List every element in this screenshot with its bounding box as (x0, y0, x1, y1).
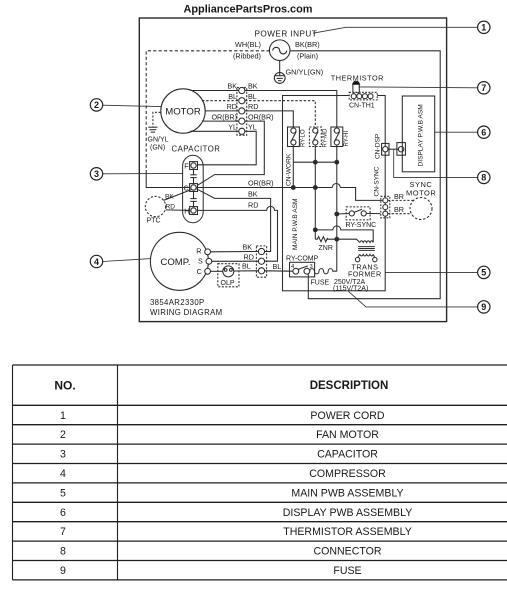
compressor terminal R (205, 249, 211, 255)
svg-text:CAPACITOR: CAPACITOR (317, 449, 378, 461)
wire OR(BR) down to capacitor C node (196, 121, 265, 187)
svg-text:YL: YL (248, 123, 257, 132)
node callout 7 (478, 82, 490, 94)
wire YL down to capacitor F terminal (198, 131, 257, 165)
svg-text:THERMISTOR: THERMISTOR (331, 74, 384, 83)
wire BL dashed to RY-MD (245, 101, 315, 128)
fuse F1 wavy symbol (310, 269, 337, 274)
svg-text:3: 3 (60, 449, 66, 461)
ground motor chassis earth GN/YL (153, 112, 161, 126)
svg-text:2: 2 (60, 429, 66, 441)
svg-text:RD: RD (166, 203, 176, 210)
svg-text:BK(BR): BK(BR) (295, 40, 320, 49)
svg-text:WH(BL): WH(BL) (235, 40, 261, 49)
svg-text:POWER INPUT: POWER INPUT (255, 30, 318, 39)
svg-text:COMP.: COMP. (160, 257, 190, 268)
wire BR lower (dashed) (388, 213, 412, 215)
svg-text:OR(BR): OR(BR) (211, 112, 237, 121)
svg-text:8: 8 (481, 173, 486, 183)
svg-text:1: 1 (60, 410, 66, 422)
parts table grid (13, 365, 507, 580)
svg-text:4: 4 (60, 468, 66, 480)
svg-text:(GN): (GN) (150, 145, 165, 152)
svg-text:POWER CORD: POWER CORD (310, 410, 385, 422)
svg-text:3854AR2330P: 3854AR2330P (150, 298, 205, 307)
svg-text:7: 7 (60, 526, 66, 538)
relay RY-LO box (288, 127, 300, 147)
wire capacitor H RD branch to compressor S (hop over BK) (198, 206, 278, 261)
wire relay common bus (292, 145, 294, 186)
svg-text:FUSE: FUSE (333, 565, 361, 577)
motor M1 fan motor circle (161, 89, 205, 133)
transformer T1 (337, 239, 360, 242)
ground GN/YL(GN) power cord earth (279, 61, 281, 76)
svg-text:DISPLAY PWB ASSEMBLY: DISPLAY PWB ASSEMBLY (283, 507, 413, 519)
svg-text:9: 9 (481, 302, 486, 312)
wire motor BL lead (dashed) (202, 100, 238, 102)
capacitor terminal F (190, 162, 198, 170)
wire motor OR(BR) lead (202, 120, 238, 122)
varistor ZNR (315, 237, 337, 242)
connector CN-TH1 dashed box 4-pin (349, 92, 377, 100)
svg-text:MOTOR: MOTOR (165, 107, 201, 118)
svg-text:PTC: PTC (147, 218, 161, 225)
node callout 6 (478, 126, 490, 138)
svg-text:MAIN PWB ASSEMBLY: MAIN PWB ASSEMBLY (291, 487, 403, 499)
node callout 9 (478, 301, 490, 313)
svg-text:RY-MD: RY-MD (323, 128, 329, 148)
svg-text:CONNECTOR: CONNECTOR (313, 546, 381, 558)
wire BL to RY-COMP (265, 270, 293, 272)
svg-text:BR: BR (394, 192, 404, 201)
svg-text:BL: BL (273, 262, 282, 271)
svg-text:COMPRESSOR: COMPRESSOR (309, 468, 386, 480)
svg-text:BL: BL (248, 92, 257, 101)
capacitor plates F-C (193, 170, 195, 175)
svg-text:YL: YL (228, 123, 237, 132)
connector CN-SYNC dashed box 3-pin (381, 196, 390, 218)
connector motor plug 5-pin dashed box (237, 88, 247, 136)
wire motor RD lead (205, 110, 238, 112)
capacitor plates C-H (193, 192, 195, 199)
capacitor terminal H (190, 207, 198, 215)
svg-text:OR(BR): OR(BR) (248, 179, 274, 188)
svg-text:BL: BL (242, 261, 251, 270)
svg-text:C: C (197, 267, 202, 276)
compressor terminal S (206, 258, 212, 264)
wire RD to RY-LO (245, 111, 293, 128)
svg-text:OR(BR): OR(BR) (248, 112, 274, 121)
svg-text:CN-WORK: CN-WORK (285, 153, 292, 186)
wire callout 1 leader (power cord) (313, 27, 478, 33)
wire capacitor C BK branch to compressor R (197, 189, 271, 252)
wire PTC RD to capacitor H (166, 209, 190, 212)
svg-text:GN/YL: GN/YL (148, 137, 169, 144)
svg-text:MAIN P.W.B ASM: MAIN P.W.B ASM (292, 198, 299, 250)
wire C to OLP (211, 270, 223, 272)
thermistor TH1 (353, 84, 359, 92)
wire callout 5 leader (main pwb) (385, 271, 477, 273)
svg-text:5: 5 (60, 487, 66, 499)
svg-text:8: 8 (60, 546, 66, 558)
node callout 5 (478, 266, 490, 278)
svg-text:3: 3 (94, 169, 99, 179)
svg-text:RD: RD (248, 102, 258, 111)
svg-text:6: 6 (60, 507, 66, 519)
svg-text:CN-DSP: CN-DSP (374, 133, 381, 159)
wire RY-HI leg down to fuse (336, 162, 338, 271)
svg-text:R: R (196, 246, 201, 255)
svg-text:S: S (198, 257, 203, 266)
wire WH(BL) ribbed dashed: power to enclosure left (146, 51, 270, 170)
wire PTC BK to capacitor C (164, 190, 192, 201)
svg-text:CAPACITOR: CAPACITOR (172, 144, 221, 153)
svg-text:RY-HI: RY-HI (344, 130, 350, 146)
svg-text:GN/YL(GN): GN/YL(GN) (286, 68, 324, 77)
svg-text:FUSE: FUSE (311, 279, 330, 286)
compressor terminal C (205, 268, 211, 274)
svg-text:CN-TH1: CN-TH1 (349, 103, 375, 110)
node callout 4 (90, 255, 102, 267)
wire capacitor C common node to CN-SYNC (OR(BR) row with hops) (196, 184, 382, 201)
svg-text:9: 9 (60, 565, 66, 577)
svg-text:F: F (184, 163, 188, 170)
wire RY-MD leg down to ZNR (314, 162, 316, 239)
svg-text:BR: BR (394, 205, 404, 214)
relay RY-HI box (331, 127, 343, 147)
svg-text:BK: BK (243, 242, 253, 251)
svg-text:1: 1 (481, 23, 486, 33)
svg-text:H: H (184, 208, 189, 215)
svg-text:(Ribbed): (Ribbed) (233, 52, 261, 61)
node callout 1 (478, 21, 490, 33)
protector OLP dashed box (218, 264, 239, 287)
wire callout 6 leader (display pwb) (435, 131, 478, 133)
svg-text:FAN MOTOR: FAN MOTOR (316, 429, 379, 441)
svg-text:NO.: NO. (54, 378, 75, 392)
svg-text:ZNR: ZNR (319, 245, 333, 252)
connector compressor plug 3-pin dashed box (256, 246, 266, 277)
svg-text:MOTOR: MOTOR (406, 189, 436, 198)
connector CN-DSP left pin (382, 143, 389, 155)
svg-text:(Plain): (Plain) (297, 52, 318, 61)
relay RY-SYNC dashed box (337, 213, 349, 216)
relay RY-COMP box (290, 262, 315, 277)
wire callout 8 leader (connector CN-DSP) (394, 149, 478, 177)
wire W1 RY-MD node to transformer right (hop) (315, 226, 373, 243)
capacitor C1 body stadium outline (183, 155, 204, 223)
wire motor YL lead (190, 130, 238, 132)
wire CN-DSP link (388, 148, 398, 150)
svg-text:BK: BK (227, 82, 237, 91)
svg-text:DESCRIPTION: DESCRIPTION (310, 380, 389, 392)
wire callout 4 leader (compressor) (103, 259, 151, 262)
wire BK to RY-HI (245, 91, 337, 128)
relay RY-MD dashed box (309, 127, 321, 147)
wire R to plug BK (211, 251, 259, 253)
wire callout 9 leader (fuse) (349, 291, 478, 307)
svg-text:4: 4 (94, 257, 99, 267)
outer diagram border frame (139, 18, 446, 322)
svg-text:OLP: OLP (221, 280, 235, 287)
svg-text:THERMISTOR ASSEMBLY: THERMISTOR ASSEMBLY (283, 526, 412, 538)
svg-text:RY-COMP: RY-COMP (286, 255, 319, 262)
svg-text:5: 5 (481, 268, 486, 278)
svg-text:RD: RD (248, 201, 258, 210)
svg-text:RY-LO: RY-LO (301, 129, 307, 147)
wire WH continues to capacitor C node (146, 170, 191, 188)
wire S to plug RD (212, 260, 258, 262)
svg-text:BK: BK (248, 189, 258, 198)
svg-text:WIRING DIAGRAM: WIRING DIAGRAM (150, 308, 222, 317)
wire callout 2 leader (fan motor) (103, 105, 162, 106)
node callout 2 (90, 99, 102, 111)
wire OLP to plug BL (234, 270, 258, 272)
svg-text:FORMER: FORMER (348, 270, 382, 279)
svg-text:6: 6 (481, 128, 486, 138)
svg-text:7: 7 (481, 83, 486, 93)
svg-text:AppliancePartsPros.com: AppliancePartsPros.com (184, 4, 313, 16)
node callout 3 (90, 168, 102, 180)
wire callout 7 leader (thermistor) (359, 86, 478, 89)
wire BR upper (dashed) (388, 199, 414, 201)
motor M3 sync motor dashed circle (410, 198, 432, 220)
node callout 8 (478, 171, 490, 183)
svg-text:RD: RD (244, 252, 254, 261)
svg-text:BK: BK (248, 82, 258, 91)
connector CN-DSP right pin (397, 143, 406, 156)
svg-text:RD: RD (227, 102, 237, 111)
capacitor terminal C (190, 184, 198, 192)
board U2 MAIN PWB ASM box (283, 96, 386, 291)
svg-text:2: 2 (94, 100, 99, 110)
wire callout 3 leader (capacitor) (103, 172, 183, 174)
thermistor PTC dashed circle (145, 196, 165, 216)
svg-text:BL: BL (228, 92, 237, 101)
svg-text:(115V/T2A): (115V/T2A) (333, 286, 368, 293)
wire motor BK lead (190, 90, 238, 92)
wire BK(BR) plain: power right side down and along bottom to RY-COMP (290, 51, 440, 299)
svg-text:DISPLAY P.W.B ASM: DISPLAY P.W.B ASM (417, 104, 424, 166)
compressor M2 circle (150, 232, 208, 290)
svg-text:CN-SYNC: CN-SYNC (374, 166, 381, 196)
board U3 DISPLAY PWB ASM box (402, 96, 434, 172)
svg-text:RY-SYNC: RY-SYNC (346, 222, 377, 229)
svg-text:BK: BK (165, 193, 174, 200)
power source U-AC circle (269, 40, 290, 61)
